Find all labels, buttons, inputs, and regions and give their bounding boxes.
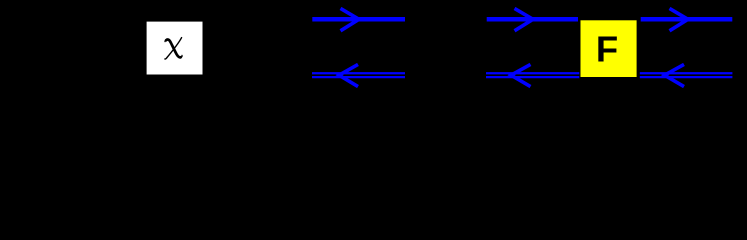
double line right-bottom-left lower [486,76,579,78]
arrowhead right-bottom-left (left) [511,64,531,86]
arrowhead right-top-right (right) [670,8,689,30]
double line right-bottom-left upper [486,72,579,74]
vertex box F [581,20,637,77]
arrowhead right-bottom-right (left) [665,64,685,86]
fermion line right-top-left [487,17,578,22]
double line middle bottom lower [312,76,405,78]
svg-text:F: F [596,29,618,70]
double line right-bottom-right upper [640,72,733,74]
arrowhead right-top-left (right) [515,8,534,30]
double line middle bottom upper [312,72,405,74]
arrowhead middle top (right) [341,8,360,30]
double line right-bottom-right lower [640,76,733,78]
label chi [165,38,182,59]
fermion line right-top-right [641,17,733,22]
arrowhead middle bottom (left) [339,64,358,86]
vertex box chi [147,22,203,75]
fermion line middle top [312,17,405,22]
